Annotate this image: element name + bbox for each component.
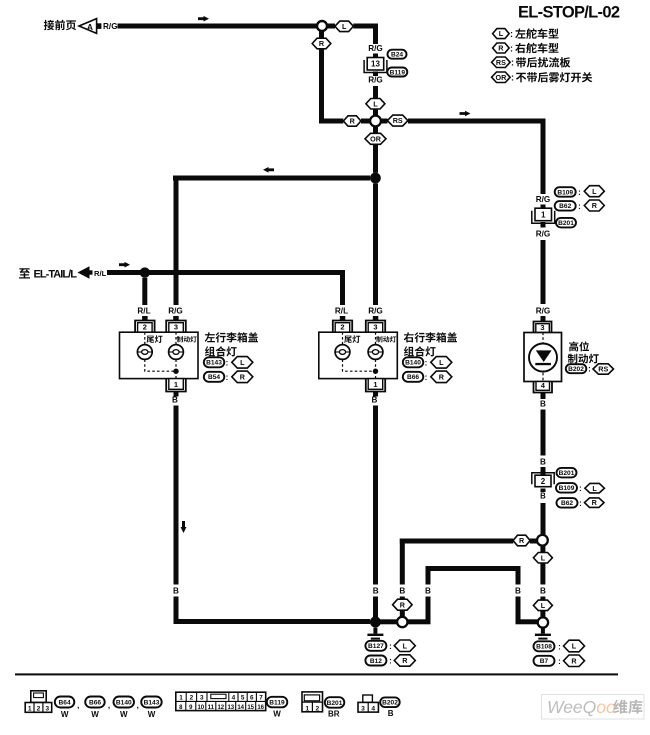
ref : R (403, 371, 452, 383)
svg-text:,: , (137, 701, 139, 710)
svg-text:B54: B54 (208, 374, 220, 381)
wire bus segments bottom (380, 619, 538, 624)
label B108 : L (534, 640, 585, 652)
label R/G (368, 76, 383, 85)
node ground junction dot (370, 617, 381, 628)
wire B down (541, 410, 546, 456)
svg-text:3: 3 (540, 323, 544, 332)
label R/G (536, 307, 551, 316)
svg-text:R: R (319, 39, 325, 48)
svg-text::: : (558, 643, 561, 652)
wire horizontal y178 to left (173, 167, 370, 305)
svg-text:B66: B66 (89, 699, 101, 706)
svg-text:4: 4 (371, 705, 375, 712)
label B109 : L (556, 483, 604, 493)
label B202 (B) (380, 697, 400, 718)
ground G2 (535, 628, 551, 640)
svg-text:15: 15 (247, 705, 254, 711)
svg-text:W: W (61, 710, 69, 719)
svg-text::: : (226, 359, 229, 368)
label B (left leg) (425, 587, 431, 596)
separator line (15, 673, 618, 675)
label B119 (W) (267, 697, 288, 719)
watermark WeeQoo (542, 695, 645, 720)
connector 2 (B201 / B109 L / B62 R) (532, 467, 554, 492)
svg-text:RS: RS (393, 116, 403, 125)
svg-text::: : (558, 657, 561, 666)
node to EL-TAIL/L (19, 266, 106, 280)
bulb tail lamp (335, 335, 360, 359)
svg-text:B143: B143 (206, 360, 222, 367)
svg-text::: : (579, 484, 582, 493)
svg-text:B12: B12 (370, 658, 382, 665)
svg-text:B64: B64 (59, 699, 71, 706)
svg-text:R: R (592, 201, 598, 210)
svg-text:1: 1 (541, 210, 546, 219)
svg-text::: : (511, 73, 514, 83)
legend hexagon RS : with rear spoiler (492, 57, 571, 68)
svg-text:B7: B7 (540, 658, 549, 665)
right trunk lid combination lamp pin 2 (333, 321, 352, 333)
wire B down to junction circle (541, 503, 546, 535)
svg-text:R: R (240, 372, 246, 381)
svg-text:B: B (372, 396, 378, 405)
label B (399, 587, 405, 596)
svg-text::: : (578, 202, 581, 211)
svg-text:2: 2 (340, 323, 344, 332)
svg-text:L: L (373, 99, 378, 108)
svg-text::: : (425, 359, 428, 368)
label B12 : R (365, 655, 415, 666)
node junction circle mid (370, 116, 381, 127)
hexagon L (366, 99, 385, 110)
label R/G left (168, 307, 183, 316)
pin 3 (166, 321, 186, 333)
svg-text:2: 2 (316, 705, 320, 712)
hexagon L on top wire (327, 21, 353, 32)
wire B left lamp down (174, 406, 187, 585)
svg-text:B202: B202 (382, 700, 398, 707)
label B140 (W) (114, 697, 139, 720)
svg-text:3: 3 (373, 323, 377, 332)
svg-text:3: 3 (174, 323, 178, 332)
connector 13 (B24/B119) (364, 54, 387, 77)
svg-text:1: 1 (305, 705, 309, 712)
svg-text:WeeQoo: WeeQoo (547, 697, 616, 717)
svg-text:3: 3 (361, 705, 365, 712)
svg-text:W: W (148, 710, 156, 719)
svg-text:R/G: R/G (368, 307, 383, 316)
svg-text::: : (389, 657, 392, 666)
svg-text:B119: B119 (390, 69, 406, 76)
wire bridge legs lower (426, 597, 521, 625)
svg-text:R/G: R/G (536, 230, 551, 239)
wire R/G center down to right lamp (373, 183, 378, 305)
svg-text:R/L: R/L (137, 307, 150, 316)
label B24 (388, 50, 407, 59)
label R/G right (368, 307, 383, 316)
svg-text:R/G: R/G (103, 22, 118, 31)
svg-text:L: L (240, 358, 245, 367)
svg-text::: : (511, 58, 514, 68)
wire R/G (373, 86, 378, 99)
ref : R (204, 371, 253, 383)
lamp body (319, 332, 398, 378)
svg-text:B201: B201 (327, 700, 343, 707)
label B201 (BR) (325, 697, 345, 718)
svg-text:1: 1 (28, 705, 32, 712)
svg-text:B127: B127 (368, 643, 384, 650)
wire R/G top horizontal (118, 16, 317, 29)
label B7 : R (534, 655, 585, 667)
label B64 (W) (55, 697, 80, 720)
svg-text:11: 11 (208, 705, 215, 711)
svg-text:B62: B62 (561, 500, 573, 507)
svg-text:B: B (172, 396, 178, 405)
svg-text:,: , (77, 701, 79, 710)
pin 3 (366, 321, 385, 333)
wire B to ground dot (373, 597, 378, 618)
svg-text:L: L (499, 29, 504, 38)
node connector circle bottom right (538, 617, 548, 627)
svg-text:3: 3 (45, 705, 49, 712)
legend hexagon R : right-hand-drive model (493, 43, 559, 54)
svg-text:B24: B24 (391, 52, 403, 59)
label B (540, 587, 546, 596)
svg-text:B202: B202 (568, 366, 584, 373)
node junction dot R/L (140, 267, 150, 277)
name label (404, 332, 457, 356)
svg-text:,: , (108, 701, 110, 710)
svg-text:1: 1 (373, 380, 377, 389)
wire R/G to center vertical (353, 24, 378, 45)
svg-text:L: L (541, 601, 546, 610)
svg-text:13: 13 (371, 60, 380, 69)
svg-text:2: 2 (37, 705, 41, 712)
svg-text:B140: B140 (405, 360, 421, 367)
node junction dot y178 (370, 173, 381, 184)
node junction circle top (317, 21, 327, 31)
hexagon L below circle (533, 546, 552, 585)
svg-text::: : (510, 43, 513, 53)
svg-text::: : (425, 373, 428, 382)
svg-text:EL-STOP/L-02: EL-STOP/L-02 (518, 4, 620, 22)
svg-text:16: 16 (257, 705, 264, 711)
svg-text:B: B (540, 400, 546, 409)
svg-text:R: R (592, 498, 598, 507)
wire R/L drop to left lamp pin 2 (142, 278, 147, 305)
label R/L left (137, 307, 150, 316)
node A from previous page (jie qian ye) (44, 19, 118, 34)
svg-text:L: L (342, 22, 347, 31)
svg-text:L: L (592, 187, 597, 196)
high mounted stop lamp body B202 (524, 333, 562, 382)
svg-text:14: 14 (237, 705, 244, 711)
ground G1 (367, 628, 383, 640)
svg-text:B201: B201 (559, 470, 575, 477)
svg-text::: : (579, 499, 582, 508)
svg-text:RS: RS (496, 58, 506, 67)
lamp body (120, 332, 199, 378)
svg-text:5: 5 (241, 695, 245, 702)
svg-text:B140: B140 (116, 699, 132, 706)
svg-text:L: L (541, 553, 546, 562)
svg-text:B: B (173, 587, 179, 596)
wire stub to pin 3 (541, 316, 546, 322)
svg-text:1: 1 (179, 695, 183, 702)
wire to junction (373, 109, 378, 116)
label B (pin4 wire) (540, 393, 546, 409)
label B (540, 492, 546, 501)
svg-text:R/G: R/G (536, 307, 551, 316)
svg-text:2: 2 (541, 477, 546, 486)
svg-text:R: R (439, 372, 445, 381)
label B143 (W) (141, 697, 162, 720)
hexagon R above bottom circle x402 (393, 597, 413, 617)
label R/L right (335, 307, 348, 316)
svg-text:R: R (571, 656, 577, 665)
svg-text:W: W (120, 710, 128, 719)
svg-text:13: 13 (227, 705, 234, 711)
svg-text:B: B (540, 587, 546, 596)
pin 1 (366, 379, 385, 392)
label B62 : R (555, 200, 605, 211)
label B201 (556, 218, 576, 228)
svg-text:R/G: R/G (536, 195, 551, 204)
svg-text:6: 6 (250, 695, 254, 702)
label B66 (W) (85, 697, 110, 720)
svg-text:B: B (540, 458, 546, 467)
svg-text:OR: OR (370, 134, 382, 143)
svg-text:R/L: R/L (335, 307, 348, 316)
svg-text::: : (578, 188, 581, 197)
ref : L (204, 357, 253, 369)
hexagon RS and wire to right (381, 111, 545, 194)
svg-text:R/G: R/G (368, 76, 383, 85)
svg-text:A: A (87, 22, 93, 32)
label B62 : R (557, 498, 605, 508)
svg-text:B: B (425, 587, 431, 596)
svg-text::: : (226, 373, 229, 382)
wire vertical x402 from y541 junction (400, 539, 405, 585)
svg-text:2: 2 (190, 695, 194, 702)
svg-text:R: R (519, 536, 525, 545)
svg-text:L: L (403, 641, 408, 650)
legend hexagon OR : without rear fog lamp switch (492, 72, 593, 83)
wire R/G down (541, 240, 546, 304)
svg-text:R: R (402, 656, 408, 665)
svg-text:R/G: R/G (368, 44, 383, 53)
svg-text:2: 2 (143, 323, 147, 332)
svg-text:B108: B108 (536, 644, 552, 651)
svg-text:EL-TAIL/L: EL-TAIL/L (34, 269, 78, 281)
svg-text:RS: RS (598, 365, 608, 374)
svg-text:R: R (400, 600, 406, 609)
svg-text:B62: B62 (559, 203, 571, 210)
label B (372, 392, 378, 405)
label B (173, 587, 179, 596)
svg-text:R/G: R/G (168, 307, 183, 316)
svg-text:B201: B201 (558, 220, 574, 227)
label B (373, 587, 379, 596)
svg-text:OR: OR (496, 73, 508, 82)
svg-text:W: W (273, 710, 281, 719)
svg-text:B: B (388, 709, 394, 718)
high mounted stop lamp U3 pin 3 (534, 322, 552, 333)
high mounted stop lamp pin 4 (534, 381, 553, 393)
svg-text:7: 7 (259, 695, 263, 702)
svg-text:B66: B66 (407, 374, 419, 381)
label R/G (536, 230, 551, 239)
name: high mounted stop lamp (568, 341, 599, 363)
wire B to bottom corner (174, 597, 371, 625)
label B201 (557, 468, 577, 478)
svg-text:R/L: R/L (94, 269, 107, 278)
label B (172, 392, 178, 405)
connector icon 2-cavity (B201) (302, 692, 323, 712)
pin 1 (166, 379, 186, 392)
svg-text::: : (588, 365, 591, 374)
svg-text:B: B (373, 587, 379, 596)
svg-text:10: 10 (197, 705, 204, 711)
svg-text:B: B (399, 587, 405, 596)
label R/G (536, 195, 551, 204)
label B202 : RS (566, 364, 614, 374)
svg-text:1: 1 (174, 380, 178, 389)
pin stubs above lamps (142, 316, 378, 321)
connector icon 16-cavity (B119) (176, 692, 266, 711)
label B127 : L (365, 640, 415, 652)
svg-text:B109: B109 (559, 485, 575, 492)
wire R/L horizontal (107, 262, 345, 275)
node connector circle (B) right y540 (537, 535, 548, 546)
node connector circle bottom x402 (397, 617, 407, 627)
wire branch R (left loop from top circle) (312, 31, 370, 126)
wire horizontal y541 with hexagon R (400, 535, 537, 546)
svg-text:B: B (540, 492, 546, 501)
svg-text:R: R (350, 117, 356, 126)
label B (540, 458, 546, 467)
svg-text:B109: B109 (557, 189, 573, 196)
label B109 : L (555, 186, 605, 197)
svg-text:B119: B119 (269, 699, 285, 706)
svg-text:W: W (91, 710, 99, 719)
svg-text:BR: BR (328, 710, 340, 719)
left trunk lid combination lamp pin 2 (135, 321, 155, 333)
wire B right lamp down (373, 406, 378, 585)
wire R/L drop to right lamp pin 2 (340, 270, 345, 305)
svg-text:4: 4 (232, 695, 236, 702)
svg-text:3: 3 (200, 695, 204, 702)
ref : L (403, 357, 452, 369)
label B (right leg) (515, 587, 521, 596)
title EL-STOP/L-02 (518, 4, 620, 22)
hexagon OR below junction (365, 127, 386, 173)
svg-text:B: B (515, 587, 521, 596)
svg-text:L: L (439, 358, 444, 367)
bulb stop lamp (368, 336, 396, 359)
connector icon 2-cavity 3/4 (B202) (358, 695, 378, 712)
bulb stop lamp (169, 336, 197, 359)
legend hexagon L : left-hand-drive model (493, 28, 559, 39)
svg-text::: : (389, 642, 392, 651)
svg-text:L: L (572, 642, 577, 651)
connector 1 (B109 L / B62 R / B201) (532, 205, 555, 228)
wire bridge (n-shape) (426, 566, 521, 585)
svg-text:B143: B143 (144, 699, 160, 706)
name label (205, 332, 258, 356)
svg-text::: : (510, 29, 513, 39)
label B119 (387, 68, 407, 77)
label R/G (368, 44, 383, 53)
svg-text:L: L (592, 484, 597, 493)
connector icon 3-cavity (B64/B66/B140/B143) (25, 691, 52, 713)
svg-text:12: 12 (217, 705, 224, 711)
bulb tail lamp (137, 335, 162, 359)
hexagon L above bottom circle (533, 597, 552, 618)
svg-text:R: R (498, 44, 504, 53)
